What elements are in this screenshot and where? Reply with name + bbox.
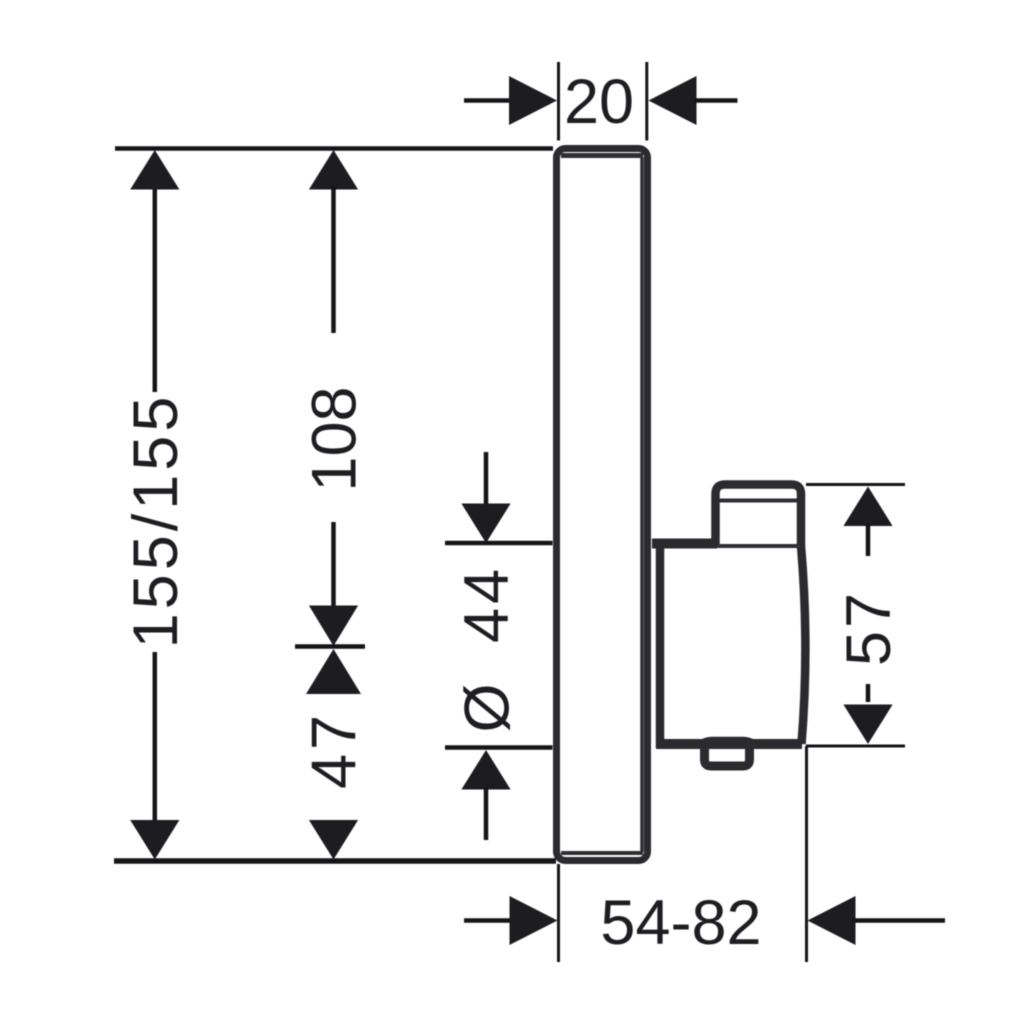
- wall plate inner top edge: [561, 153, 643, 158]
- dimension 155/155 arrow up: [130, 150, 179, 190]
- dimension 44 upper shaft: [484, 452, 489, 506]
- dimension 54-82 right extension line: [805, 746, 808, 962]
- dimension 108 arrow up: [309, 150, 358, 190]
- bottom tab bump: [696, 739, 759, 748]
- dimension 108 upper shaft: [331, 186, 336, 333]
- dimension 54-82 left arrow: [510, 896, 558, 945]
- svg-text:57: 57: [834, 590, 904, 666]
- dimension 44 bottom tick: [445, 745, 553, 750]
- dimension 44 top tick: [445, 541, 553, 546]
- dimension 57 bottom extension line: [806, 745, 905, 748]
- dimension 57 arrow up: [843, 487, 892, 527]
- dimension 54-82 left extension line: [557, 864, 560, 962]
- bottom reference line: [114, 858, 556, 864]
- wall plate inner right edge: [640, 157, 644, 852]
- top reference line: [115, 146, 553, 151]
- dimension 155/155 arrow down: [130, 820, 179, 860]
- handle top step inner line: [719, 499, 797, 503]
- svg-text:Ø: Ø: [453, 683, 523, 732]
- svg-text:108: 108: [300, 386, 370, 491]
- dimension 57 lower tail: [866, 684, 871, 702]
- handle top step outline: [716, 485, 802, 547]
- dimension 108 arrow down: [309, 606, 358, 647]
- dimension 155/155 line upper shaft: [153, 186, 158, 392]
- dimension 57 top extension line: [806, 483, 905, 486]
- dimension 47 arrow down: [309, 820, 358, 860]
- tick between 108 and 47: [295, 644, 365, 649]
- wall plate outline: [557, 149, 648, 861]
- wall plate inner bottom edge: [561, 851, 643, 855]
- dimension 57 arrow down: [843, 705, 892, 745]
- svg-text:54-82: 54-82: [600, 888, 761, 958]
- dimension 20 right extension line: [645, 62, 648, 141]
- handle body top edge: [652, 539, 717, 549]
- svg-text:155/155: 155/155: [121, 393, 191, 649]
- handle body left edge: [656, 539, 665, 748]
- dimension 54-82 right arrow: [808, 896, 856, 945]
- dimension 44 arrow down: [461, 504, 510, 544]
- dimension 44 lower shaft: [484, 787, 489, 840]
- svg-text:47: 47: [300, 711, 370, 789]
- svg-text:44: 44: [452, 565, 522, 643]
- dimension 108 lower shaft: [331, 522, 336, 606]
- svg-text:20: 20: [564, 67, 634, 137]
- dimension 54-82 left tail: [464, 918, 511, 923]
- handle body right edge: [801, 546, 805, 744]
- dimension 20 right tail: [694, 98, 738, 103]
- handle body hidden edge under step: [717, 544, 798, 548]
- dimension 20 right arrow: [649, 76, 697, 125]
- dimension 20 left tail: [464, 98, 512, 103]
- dimension 47 arrow up: [306, 649, 361, 694]
- dimension 155/155 line lower shaft: [153, 652, 158, 822]
- bottom tab outline: [705, 746, 750, 766]
- dimension 20 left extension line: [557, 62, 560, 141]
- handle body bottom edge: [656, 739, 802, 749]
- dimension 20 left arrow: [509, 76, 557, 125]
- dimension 57 upper tail: [866, 524, 871, 556]
- dimension 54-82 right tail: [853, 918, 945, 923]
- dimension 44 arrow up: [461, 750, 510, 790]
